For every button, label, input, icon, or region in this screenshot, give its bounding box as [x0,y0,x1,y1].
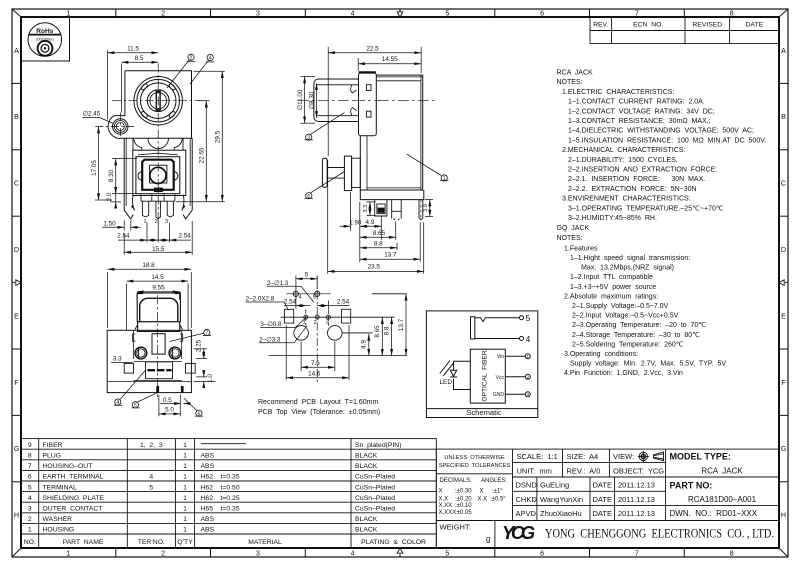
svg-text:UNIT: mm: UNIT: mm [517,466,552,475]
optical fiber box [470,349,505,403]
side view dims [301,47,449,274]
svg-text:2.25: 2.25 [195,339,202,352]
svg-text:CHKD: CHKD [516,495,538,504]
barrel [314,79,359,122]
4.9 [380,217,382,240]
svg-text:1–1.Hight speed signal tran: 1–1.Hight speed signal transmission: [570,255,690,262]
svg-text:MATERIAL: MATERIAL [248,539,282,546]
svg-text:Supply voltage: Min. 2.7V,: Supply voltage: Min. 2.7V, Max. 5.5V, TY… [570,361,726,368]
svg-text:3.9: 3.9 [423,204,429,212]
svg-text:2.54: 2.54 [178,233,191,240]
svg-text:NO.: NO. [24,539,36,546]
svg-text:X.XXX: X.XXX [439,510,457,516]
svg-text:1.ELECTRIC CHARACTERISTICS:: 1.ELECTRIC CHARACTERISTICS: [562,89,674,96]
svg-text::±0.05: :±0.05 [455,510,472,516]
svg-text:1.50: 1.50 [103,221,116,228]
svg-text:Schematic: Schematic [466,408,502,417]
dim 2.54 x2 [118,239,147,241]
PCB LAYOUT VIEW [269,276,408,384]
svg-text:8: 8 [28,453,32,460]
BOTTOM VIEW [107,293,195,397]
svg-text:G: G [14,444,20,453]
svg-text:1–5.INSULATION RESISTANCE: 1: 1–5.INSULATION RESISTANCE: 100 MΩ MIN.AT… [568,137,766,144]
plug outline [137,293,180,322]
svg-text:2: 2 [28,516,32,523]
svg-text:SHIELDING PLATE: SHIELDING PLATE [43,495,105,502]
svg-text:F: F [781,378,786,387]
svg-text:∅11.00: ∅11.00 [297,89,304,110]
svg-text:2–5.Soldering Temperature: 2: 2–5.Soldering Temperature: 260℃ [572,341,684,348]
svg-text:2–1.Supply Voltage:–0.5~7.0V: 2–1.Supply Voltage:–0.5~7.0V [572,303,669,310]
svg-text:8: 8 [730,549,734,558]
svg-text:RoHs: RoHs [36,28,53,35]
title block [436,449,779,547]
svg-text::±0.5°: :±0.5° [490,497,506,503]
svg-text:Vcc: Vcc [496,375,505,381]
petal ellipses [140,83,148,91]
svg-text:NOTES:: NOTES: [557,235,583,242]
svg-text:E: E [14,312,19,321]
svg-text:CuSn–Plated: CuSn–Plated [355,495,395,502]
svg-text:4: 4 [209,56,212,62]
svg-text:UNLESS OTHERWISE: UNLESS OTHERWISE [444,455,504,461]
svg-text:1: 1 [66,549,70,558]
center slot [156,91,160,110]
svg-text:22.65: 22.65 [199,147,206,163]
leaders [310,113,345,135]
3.9 [425,199,433,201]
svg-text:BLACK: BLACK [355,453,378,460]
svg-text:13.7: 13.7 [384,251,397,258]
svg-text:23.5: 23.5 [368,264,381,271]
svg-text:H62 t=0.35: H62 t=0.35 [201,474,240,481]
pins Vin Vcc GND [505,354,530,397]
svg-text:DECIMALS:: DECIMALS: [440,478,473,484]
leaders [170,333,204,341]
svg-text:CuSn–Plated: CuSn–Plated [355,474,395,481]
svg-text:VIEW:: VIEW: [613,452,634,461]
svg-text:CuSn–Plated: CuSn–Plated [355,484,395,491]
svg-text:REV.: A/0: REV.: A/0 [567,466,601,475]
svg-text:H62 t=0.50: H62 t=0.50 [201,484,240,491]
svg-text:X: X [480,488,484,494]
svg-text:5: 5 [445,549,449,558]
svg-text:18.8: 18.8 [142,262,155,269]
svg-text:5: 5 [313,294,316,300]
svg-text:WangYunXin: WangYunXin [540,495,583,504]
centerline [157,296,159,398]
svg-text:GQ JACK: GQ JACK [557,225,590,232]
pad row line [281,316,395,318]
1.90 [349,192,351,231]
svg-text:1–3.+3~+5V power source: 1–3.+3~+5V power source [570,284,656,291]
svg-text:8.30: 8.30 [108,169,115,182]
barrel spring contacts [351,85,357,93]
svg-text:3: 3 [28,506,32,513]
svg-text:3.3: 3.3 [113,356,122,363]
svg-text:1.0: 1.0 [207,374,214,383]
svg-text:2.54: 2.54 [337,299,350,306]
neck cut arcs [134,138,142,150]
svg-text:1: 1 [66,9,70,18]
svg-text:WASHER: WASHER [43,516,73,523]
svg-text:Recommend PCB Layout T=1.60: Recommend PCB Layout T=1.60mm [258,399,378,406]
boss centerline [95,126,135,128]
svg-text:DWN. NO.: RD01–XXX: DWN. NO.: RD01–XXX [670,509,758,518]
svg-text:8.65: 8.65 [373,230,386,237]
PCB note text [258,399,380,416]
svg-text:6: 6 [540,9,544,18]
svg-text:Sn plated(PIN): Sn plated(PIN) [355,442,401,449]
svg-text:FIBER: FIBER [43,442,63,449]
svg-text:1: 1 [143,219,146,225]
svg-text:B: B [14,112,19,121]
svg-text:2011.12.13: 2011.12.13 [618,509,655,518]
5.0 [179,395,181,417]
svg-text:OPTICAL FIBER: OPTICAL FIBER [482,350,489,401]
row ticks [12,83,788,481]
column ticks [116,9,685,557]
svg-text:7: 7 [28,463,32,470]
svg-text:1: 1 [303,320,306,326]
svg-text:1.90: 1.90 [349,219,362,226]
svg-text::±0.10: :±0.10 [455,503,472,509]
svg-text:PLATING & COLOR: PLATING & COLOR [361,539,426,546]
right extensions [286,293,331,295]
dim 8.30 [112,158,137,160]
18.8 [107,272,109,328]
svg-text:∅8.30: ∅8.30 [309,91,316,109]
svg-text:2–2.Input Voltage:–0.5~Vcc+0.: 2–2.Input Voltage:–0.5~Vcc+0.5V [572,313,679,320]
svg-text:ABS: ABS [201,463,215,470]
svg-text:BLACK: BLACK [355,527,378,534]
8.65 [381,317,383,355]
svg-text:1–2.Input TTL compatible: 1–2.Input TTL compatible [570,274,653,281]
svg-text:DATE: DATE [593,509,612,518]
svg-text:6: 6 [198,411,201,417]
svg-text:F: F [14,378,19,387]
svg-text:2.54: 2.54 [284,299,297,306]
svg-text:5: 5 [445,9,449,18]
svg-text:X.X: X.X [439,497,449,503]
svg-text:X: X [439,488,443,494]
switch contact to pin 5 [475,318,520,322]
LED [440,361,471,390]
label leaders [167,60,190,89]
centerline horizontal [112,100,204,102]
side tabs [124,363,133,373]
revision table [590,17,779,44]
svg-text:ABS: ABS [201,516,215,523]
svg-text:PART NO:: PART NO: [670,481,713,491]
svg-text:9: 9 [28,442,32,449]
svg-text:1: 1 [527,354,530,359]
svg-text:3: 3 [307,135,310,141]
svg-text:ABS: ABS [201,453,215,460]
svg-text:2–∅1.3: 2–∅1.3 [267,280,289,287]
svg-text:1.Features: 1.Features [564,245,598,252]
svg-text:B: B [781,112,786,121]
corner brackets [133,334,136,341]
13.7 [419,222,421,262]
svg-text:2–3.Operating Temperature: –: 2–3.Operating Temperature: –20 to 70℃ [572,322,706,329]
svg-text:PLUG: PLUG [43,453,62,460]
jack rings [134,77,182,125]
svg-text:15.5: 15.5 [152,246,165,253]
toslink port [322,158,327,187]
svg-text:H: H [781,511,786,520]
svg-text:6: 6 [540,549,544,558]
big holes dia3.3 [294,326,309,341]
toslink block [133,150,186,195]
base strip [360,190,424,200]
svg-text:APVD: APVD [516,509,537,518]
dim 5 [295,276,297,290]
svg-text:DSND: DSND [516,481,538,490]
svg-text:4: 4 [351,9,355,18]
svg-text:NOTES:: NOTES: [557,79,583,86]
svg-text:Vin: Vin [497,354,504,360]
svg-text:BLACK: BLACK [355,516,378,523]
svg-text:3: 3 [527,392,530,397]
dim 17.05 [98,127,100,201]
svg-text:1–1.CONTACT CURRENT RATING:: 1–1.CONTACT CURRENT RATING: 2.0A. [568,99,705,106]
14.5 [126,284,128,331]
svg-text:PCB Top View (Tolerance: ±: PCB Top View (Tolerance: ±0.05mm) [258,409,380,416]
left mounting leg [124,138,133,219]
svg-text:5: 5 [28,484,32,491]
svg-text:3.3: 3.3 [363,205,369,213]
svg-text:RCA181D00–A001: RCA181D00–A001 [688,495,757,504]
pin extension lines [146,223,148,243]
svg-text:A: A [14,46,19,55]
svg-text:2–2.0X2.8: 2–2.0X2.8 [246,296,275,303]
svg-text:D: D [14,245,19,254]
svg-text:ZhuoXiaoHu: ZhuoXiaoHu [540,509,582,518]
svg-text:HOUSING–OUT: HOUSING–OUT [43,463,93,470]
svg-text:2: 2 [155,219,158,225]
svg-text:8.5: 8.5 [135,55,144,62]
svg-text:1: 1 [183,474,187,481]
body outline [120,71,192,139]
svg-text:2–2.2. EXTRACTION FORCE: 5N: 2–2.2. EXTRACTION FORCE: 5N~30N [568,186,697,193]
svg-text:2.MECHANICAL CHARACTERISTICS:: 2.MECHANICAL CHARACTERISTICS: [562,147,685,154]
svg-text:4.9: 4.9 [366,219,375,226]
svg-text:ANGLES:: ANGLES: [481,478,507,484]
svg-text:14.55: 14.55 [382,56,398,63]
jack symbol (sleeve bar) [471,316,524,341]
svg-text:1, 2, 3: 1, 2, 3 [140,442,163,449]
svg-text:3–2.HUMIDTY:45~85% RH.: 3–2.HUMIDTY:45~85% RH. [568,215,657,222]
svg-text:8.8: 8.8 [374,241,383,248]
housing outer [107,330,191,392]
front view dimensions [83,50,225,255]
svg-text:11.5: 11.5 [127,46,139,53]
svg-text:DATE: DATE [593,481,612,490]
svg-text:TERMINAL: TERMINAL [43,484,78,491]
dim 11.5 [107,50,109,120]
svg-text:RCA JACK: RCA JACK [557,70,594,77]
model/part texts [670,452,731,491]
svg-text:4: 4 [28,495,32,502]
svg-text:YONG CHENGGONG ELECTRONICS: YONG CHENGGONG ELECTRONICS CO. , LTD. [545,527,774,541]
svg-text:MODEL TYPE:: MODEL TYPE: [670,452,731,462]
svg-text:2–1.DURABILITY: 1500 CYCLES.: 2–1.DURABILITY: 1500 CYCLES. [568,157,678,164]
svg-text:8: 8 [730,9,734,18]
svg-text:1: 1 [183,442,187,449]
svg-text::±0.20: :±0.20 [455,497,472,503]
svg-text:5: 5 [526,313,531,323]
svg-text:2002/95/EG: 2002/95/EG [36,38,54,42]
wire to pin 4 [475,338,520,340]
boss tab arc [108,116,120,139]
svg-text:1: 1 [443,176,446,182]
7.6 [300,342,302,372]
tolerance box text [439,455,511,516]
svg-text:C: C [781,179,786,188]
svg-text:4: 4 [116,400,119,406]
svg-text:5.0: 5.0 [165,407,174,414]
svg-text:1: 1 [183,453,187,460]
svg-text:OUTER CONTACT: OUTER CONTACT [43,506,103,513]
dims 2.54 [295,297,297,309]
svg-text:RCA JACK: RCA JACK [701,467,743,476]
svg-text:4: 4 [351,549,355,558]
svg-text:3: 3 [326,320,329,326]
svg-text:6: 6 [307,194,310,200]
svg-text:4: 4 [299,294,302,300]
svg-text:BLACK: BLACK [355,463,378,470]
svg-text:1: 1 [183,516,187,523]
svg-text::±0.30: :±0.30 [455,488,472,494]
bottom pins (black) [156,386,159,393]
GQ JACK notes [557,225,727,377]
svg-text:2–2.INSERTION AND EXTRACTION: 2–2.INSERTION AND EXTRACTION FORCE: [568,167,717,174]
svg-text:3: 3 [165,219,168,225]
3.3 label [111,362,132,364]
svg-text:g: g [486,535,490,544]
pads dia0.8 [304,315,308,319]
svg-text:EARTH TERMINAL: EARTH TERMINAL [43,474,104,481]
svg-text:3: 3 [256,9,260,18]
shielding window [146,362,173,379]
svg-text:7: 7 [635,9,639,18]
svg-text:2: 2 [314,320,317,326]
svg-text:DATE: DATE [593,495,612,504]
svg-text:D: D [781,245,786,254]
14.6 [285,325,287,380]
dim 22.65 [199,100,210,102]
8.65 [395,222,397,240]
central slot [152,334,165,354]
svg-text:3–∅0.8: 3–∅0.8 [260,321,282,328]
svg-text:1–2.CONTACT VOLTAGE RATING:: 1–2.CONTACT VOLTAGE RATING: 34V DC; [568,108,715,115]
svg-text:4: 4 [149,474,153,481]
bottom pins [375,200,387,216]
SIDE VIEW [298,72,435,220]
svg-text:7: 7 [205,331,208,337]
svg-text:3.Operating conditions:: 3.Operating conditions: [564,351,638,358]
svg-text:1: 1 [183,495,187,502]
body block [360,75,422,190]
svg-text:9.55: 9.55 [152,285,165,292]
dim 29.5 [194,70,225,72]
frame column numbers top [66,9,733,18]
holes dia1.3 [293,291,298,296]
right mounting leg [183,138,192,219]
centerline vertical [157,64,159,225]
svg-text:H: H [14,511,19,520]
svg-text:8.65: 8.65 [374,325,381,338]
svg-text:H62 t=0.25: H62 t=0.25 [201,495,240,502]
svg-text:5: 5 [305,272,309,279]
RCA JACK notes [557,70,767,223]
3.3 [367,201,376,203]
13.7 [405,294,407,356]
svg-text:13.7: 13.7 [398,318,405,331]
svg-text:2.54: 2.54 [117,233,130,240]
svg-text:14.5: 14.5 [151,274,164,281]
svg-text:1–4.DIELECTRIC WITHSTANDING: 1–4.DIELECTRIC WITHSTANDING VOLTAGE: 500… [568,128,754,135]
parts table [21,439,436,548]
9.55 [136,294,138,299]
flange plate [359,73,377,136]
svg-text:3.ENVIRENMENT CHARACTERISTICS: 3.ENVIRENMENT CHARACTERISTICS: [562,196,691,203]
schematic box [426,311,537,418]
svg-text:2011.12.13: 2011.12.13 [618,495,655,504]
svg-text:17.05: 17.05 [91,160,98,176]
title block center texts [516,452,665,518]
svg-text:∅2.45: ∅2.45 [83,111,101,118]
svg-text:1: 1 [183,484,187,491]
1.0 [196,376,207,378]
2.45 leader [83,116,100,118]
svg-text:1: 1 [28,527,32,534]
svg-text:7.6: 7.6 [311,360,320,367]
svg-text:REV.: REV. [593,22,608,29]
svg-text:X.X: X.X [478,497,488,503]
svg-text:2: 2 [190,56,193,62]
bottom line [269,355,408,357]
dim 15.5 [123,234,125,255]
svg-text:Max. 13.2Mbps,(NRZ signal): Max. 13.2Mbps,(NRZ signal) [581,265,674,272]
svg-text:2: 2 [161,9,165,18]
svg-text:2: 2 [527,375,530,380]
svg-text:TER’NO.: TER’NO. [138,539,165,546]
svg-text:0.5: 0.5 [163,397,172,404]
svg-text:CuSn–Plated: CuSn–Plated [355,506,395,513]
14.55 [357,58,359,71]
svg-text:2–4.Storage Temperature: –30: 2–4.Storage Temperature: –30 to 80℃ [572,332,700,339]
RoHS logo box [21,17,70,61]
svg-text:22.5: 22.5 [366,45,379,52]
svg-text:3–1.OPERATING TEMPERATURE.–25: 3–1.OPERATING TEMPERATURE.–25℃~+70℃ [568,205,724,212]
view symbols [638,451,664,462]
svg-text:5: 5 [134,403,137,409]
svg-text:SPECIFIED TOLERANCES: SPECIFIED TOLERANCES [439,463,511,469]
svg-text:X.XX: X.XX [439,503,453,509]
frame column numbers bottom [66,549,733,558]
svg-text:2: 2 [161,549,165,558]
svg-text:1: 1 [183,463,187,470]
dia 8.30 [316,83,318,118]
svg-text:SCALE: 1:1: SCALE: 1:1 [517,452,558,461]
svg-text:2.0: 2.0 [106,192,113,201]
svg-text:1–3.CONTACT RESISTANCE: 30mΩ: 1–3.CONTACT RESISTANCE: 30mΩ MAX.; [568,118,711,125]
svg-text:4: 4 [526,334,531,344]
svg-text:WEIGHT:: WEIGHT: [440,523,471,532]
svg-text:4.9: 4.9 [361,340,368,349]
